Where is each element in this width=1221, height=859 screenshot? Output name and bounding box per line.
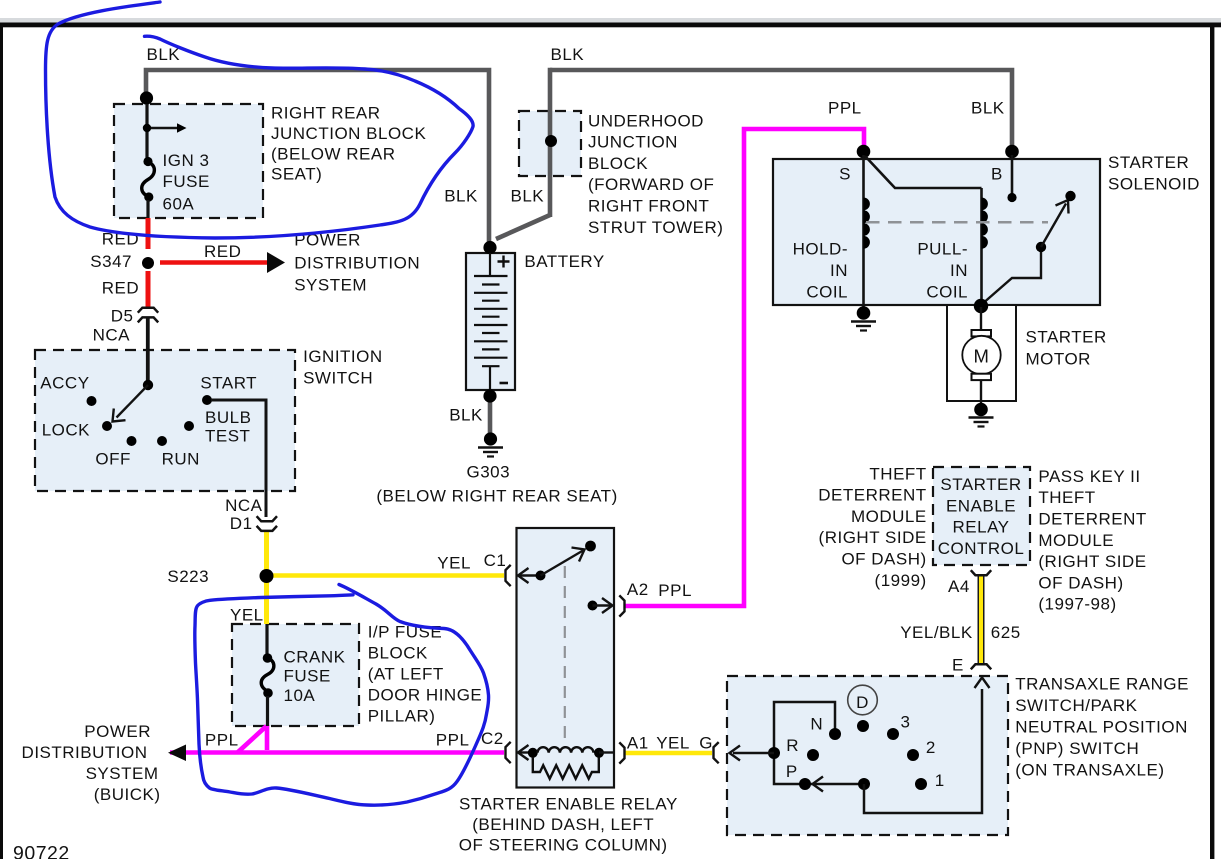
ground below starter motor bbox=[974, 403, 988, 417]
svg-text:IGNITION: IGNITION bbox=[303, 347, 383, 366]
PNP junction node R row bbox=[768, 747, 780, 759]
svg-text:(ON TRANSAXLE): (ON TRANSAXLE) bbox=[1015, 760, 1164, 779]
relay switch arm bbox=[541, 551, 584, 576]
svg-text:START: START bbox=[200, 374, 257, 393]
svg-text:RELAY: RELAY bbox=[953, 518, 1010, 537]
relay coil left node bbox=[528, 748, 538, 758]
relay switch pivot node bbox=[536, 571, 546, 581]
svg-text:E: E bbox=[952, 655, 964, 674]
svg-text:DISTRIBUTION: DISTRIBUTION bbox=[294, 253, 420, 272]
svg-text:R: R bbox=[786, 736, 799, 755]
svg-text:JUNCTION: JUNCTION bbox=[588, 133, 678, 152]
connector D1 (lower half) bbox=[257, 526, 277, 531]
hold-in coil bumps bbox=[864, 198, 870, 249]
feed arrow (filled) bbox=[177, 123, 187, 132]
contact START bbox=[202, 395, 212, 405]
relay coil scallops bbox=[538, 747, 594, 753]
svg-text:JUNCTION BLOCK: JUNCTION BLOCK bbox=[271, 124, 426, 143]
svg-text:IGN 3: IGN 3 bbox=[163, 151, 210, 170]
wire RED to power distribution arrow bbox=[160, 260, 270, 265]
starter motor box bbox=[947, 305, 1016, 401]
svg-text:SEAT): SEAT) bbox=[271, 165, 322, 184]
relay switch contact node bbox=[585, 541, 596, 552]
svg-text:IN: IN bbox=[830, 261, 848, 280]
svg-text:SWITCH/PARK: SWITCH/PARK bbox=[1015, 696, 1137, 715]
relay A1 link bbox=[599, 751, 613, 753]
svg-text:D5: D5 bbox=[111, 306, 134, 325]
relay switch: C1 arrow bbox=[519, 574, 541, 576]
svg-text:(AT LEFT: (AT LEFT bbox=[368, 665, 444, 684]
svg-text:FUSE: FUSE bbox=[284, 666, 331, 685]
hold-in coil wire bbox=[862, 155, 865, 305]
solenoid arm pivot node bbox=[1036, 242, 1046, 252]
solenoid S terminal node bbox=[857, 145, 871, 159]
svg-text:POWER: POWER bbox=[84, 722, 151, 741]
battery + sign bbox=[498, 256, 510, 268]
page frame top border bbox=[0, 23, 1221, 28]
connector A2 bbox=[619, 595, 624, 616]
arrow to power distribution system (black filled) bbox=[267, 252, 285, 273]
ignition switch arm bbox=[117, 385, 149, 418]
contact 2 bbox=[907, 749, 919, 761]
contact P bbox=[799, 778, 811, 790]
wire BLK diagonal to battery + node bbox=[496, 215, 550, 239]
svg-text:(1999): (1999) bbox=[875, 571, 927, 590]
solenoid junction to starter motor bbox=[974, 299, 988, 313]
svg-text:(RIGHT SIDE: (RIGHT SIDE bbox=[819, 528, 927, 547]
battery - terminal node bbox=[483, 389, 496, 402]
contact RUN bbox=[157, 436, 167, 446]
relay C1 arrowhead bbox=[518, 568, 529, 583]
ground G303 bbox=[484, 432, 497, 445]
svg-text:10A: 10A bbox=[284, 686, 316, 705]
svg-text:NEUTRAL POSITION: NEUTRAL POSITION bbox=[1015, 717, 1188, 736]
feed arrow line bbox=[151, 127, 178, 130]
wire into crank fuse bbox=[265, 624, 268, 654]
svg-text:BATTERY: BATTERY bbox=[524, 252, 604, 271]
svg-text:YEL: YEL bbox=[656, 734, 690, 753]
right rear junction block (IGN 3 fuse) dashed box bbox=[114, 104, 263, 218]
node S347 bbox=[142, 257, 154, 269]
svg-text:(PNP) SWITCH: (PNP) SWITCH bbox=[1015, 739, 1139, 758]
blue freehand circle annotation (top: around right rear junction block) bbox=[46, 2, 474, 238]
svg-text:THEFT: THEFT bbox=[1038, 488, 1095, 507]
svg-text:D1: D1 bbox=[230, 514, 253, 533]
svg-text:OF STEERING COLUMN): OF STEERING COLUMN) bbox=[459, 835, 668, 854]
svg-text:(RIGHT SIDE: (RIGHT SIDE bbox=[1038, 552, 1146, 571]
battery - sign bbox=[500, 382, 509, 385]
svg-text:C1: C1 bbox=[484, 551, 507, 570]
relay coil C2 arrow bbox=[519, 751, 533, 753]
wire BLK: right rear junction block to battery + bbox=[146, 70, 489, 245]
svg-text:SYSTEM: SYSTEM bbox=[86, 764, 159, 783]
svg-text:C2: C2 bbox=[481, 729, 504, 748]
connector D5 (upper half) bbox=[138, 308, 158, 313]
svg-text:DOOR HINGE: DOOR HINGE bbox=[368, 686, 483, 705]
PNP junction node bottom bbox=[858, 778, 870, 790]
svg-text:ENABLE: ENABLE bbox=[946, 496, 1016, 515]
motor brush top bbox=[972, 330, 992, 336]
relay A2 contact arrow bbox=[588, 601, 598, 611]
page frame top gray strip bbox=[0, 18, 1221, 23]
wire RED S347 to D5 bbox=[146, 271, 151, 307]
wire B to contact bbox=[1011, 155, 1014, 197]
svg-text:OF DASH): OF DASH) bbox=[841, 550, 926, 569]
ignition switch pivot node bbox=[143, 380, 153, 390]
svg-text:SWITCH: SWITCH bbox=[303, 369, 373, 388]
wire motor to ground bbox=[980, 380, 982, 403]
svg-text:(1997-98): (1997-98) bbox=[1038, 595, 1116, 614]
node S223 bbox=[260, 569, 274, 583]
svg-text:BLOCK: BLOCK bbox=[588, 154, 648, 173]
svg-text:RED: RED bbox=[102, 279, 139, 298]
solenoid switch arm bbox=[981, 251, 1041, 305]
svg-text:(FORWARD OF: (FORWARD OF bbox=[588, 175, 714, 194]
contact R bbox=[807, 749, 819, 761]
arrowhead at P contact bbox=[813, 777, 824, 792]
svg-text:YEL/BLK: YEL/BLK bbox=[900, 623, 973, 642]
relay dashed link bbox=[564, 566, 566, 749]
wire START to D1 bbox=[211, 400, 266, 517]
wire YEL S223 to relay C1 bbox=[273, 573, 504, 578]
svg-text:90722: 90722 bbox=[13, 843, 70, 859]
contact 3 bbox=[887, 728, 899, 740]
starter solenoid box bbox=[773, 159, 1100, 305]
connector D1 (upper half) bbox=[257, 516, 277, 521]
svg-text:BLK: BLK bbox=[511, 187, 545, 206]
svg-text:STARTER ENABLE RELAY: STARTER ENABLE RELAY bbox=[459, 794, 678, 813]
svg-text:THEFT: THEFT bbox=[869, 464, 926, 483]
svg-text:DETERRENT: DETERRENT bbox=[1038, 510, 1146, 529]
svg-text:M: M bbox=[974, 345, 990, 366]
svg-text:PILLAR): PILLAR) bbox=[368, 707, 436, 726]
fuse IGN 3 60A element bbox=[143, 157, 152, 166]
fuse CRANK 10A element bbox=[261, 658, 274, 692]
connector E bbox=[971, 664, 991, 669]
svg-text:CONTROL: CONTROL bbox=[938, 539, 1025, 558]
svg-text:2: 2 bbox=[926, 738, 936, 757]
svg-text:STARTER: STARTER bbox=[1026, 328, 1107, 347]
wire BLK: underhood junction to solenoid B bbox=[550, 70, 1012, 150]
svg-text:G303: G303 bbox=[467, 462, 511, 481]
svg-text:CRANK: CRANK bbox=[284, 647, 346, 666]
svg-text:SOLENOID: SOLENOID bbox=[1108, 175, 1200, 194]
svg-text:N: N bbox=[810, 714, 823, 733]
ignition switch dashed box bbox=[35, 350, 295, 491]
solenoid plunger dashed link bbox=[866, 221, 1048, 224]
starter enable relay box bbox=[517, 528, 615, 788]
relay arm arrowhead bbox=[572, 548, 585, 562]
svg-text:BLK: BLK bbox=[551, 45, 585, 64]
relay coil right node bbox=[594, 748, 604, 758]
svg-text:OF DASH): OF DASH) bbox=[1038, 573, 1123, 592]
svg-text:I/P FUSE: I/P FUSE bbox=[368, 622, 443, 641]
svg-text:IN: IN bbox=[950, 261, 968, 280]
svg-text:(BUICK): (BUICK) bbox=[94, 785, 161, 804]
contact B side bbox=[1007, 193, 1016, 202]
relay coil resistor zigzag bbox=[533, 757, 599, 779]
contact BULB TEST bbox=[184, 421, 194, 431]
svg-text:SYSTEM: SYSTEM bbox=[294, 276, 367, 295]
relay A2 arrowhead bbox=[602, 598, 613, 613]
svg-text:A4: A4 bbox=[948, 577, 970, 596]
svg-text:COIL: COIL bbox=[926, 283, 968, 302]
svg-text:OFF: OFF bbox=[95, 449, 130, 468]
wire S to pull-in coil bbox=[865, 156, 982, 188]
connector A1 bbox=[619, 742, 624, 763]
solenoid arm arrowhead bbox=[1056, 200, 1069, 214]
tap node in junction block bbox=[143, 124, 151, 132]
D position circle bbox=[848, 685, 878, 715]
wire PPL: relay A2 to solenoid S bbox=[626, 129, 865, 606]
PNP internal wiring N-R-P path bbox=[774, 702, 864, 784]
svg-text:TEST: TEST bbox=[205, 426, 250, 445]
svg-text:S: S bbox=[839, 164, 851, 183]
page frame right border bbox=[1210, 23, 1214, 859]
svg-text:S223: S223 bbox=[167, 567, 209, 586]
underhood junction block dashed box bbox=[519, 111, 581, 176]
svg-text:BLK: BLK bbox=[449, 405, 483, 424]
svg-text:UNDERHOOD: UNDERHOOD bbox=[588, 111, 704, 130]
svg-text:PASS KEY II: PASS KEY II bbox=[1038, 467, 1140, 486]
svg-text:625: 625 bbox=[991, 623, 1021, 642]
svg-text:STARTER: STARTER bbox=[940, 475, 1021, 494]
contact N bbox=[829, 728, 841, 740]
wire BLK through underhood junction block bbox=[548, 68, 553, 217]
battery box bbox=[466, 253, 515, 390]
svg-text:(BEHIND DASH, LEFT: (BEHIND DASH, LEFT bbox=[472, 815, 654, 834]
I/P fuse block (crank fuse) dashed box bbox=[232, 624, 359, 726]
svg-text:BLOCK: BLOCK bbox=[368, 643, 428, 662]
svg-text:COIL: COIL bbox=[806, 283, 848, 302]
svg-text:1: 1 bbox=[935, 771, 945, 790]
arrowhead to G connector bbox=[730, 746, 741, 761]
svg-text:A1: A1 bbox=[627, 734, 649, 753]
svg-text:PPL: PPL bbox=[205, 731, 239, 750]
svg-text:S347: S347 bbox=[90, 252, 132, 271]
contact ACCY bbox=[87, 396, 97, 406]
pull-in coil wire bbox=[980, 188, 983, 305]
solenoid B terminal node bbox=[1005, 145, 1019, 159]
svg-text:DISTRIBUTION: DISTRIBUTION bbox=[22, 743, 148, 762]
blue freehand circle annotation (bottom: around crank fuse block) bbox=[195, 585, 489, 806]
PNP wire to E bbox=[864, 689, 982, 813]
svg-text:DETERRENT: DETERRENT bbox=[818, 486, 926, 505]
svg-text:B: B bbox=[991, 164, 1003, 183]
svg-text:BULB: BULB bbox=[205, 408, 251, 427]
wire solenoid to motor bbox=[980, 307, 982, 330]
ignition switch arm arrowhead bbox=[113, 409, 126, 422]
svg-text:PULL-: PULL- bbox=[917, 239, 968, 258]
battery + terminal node bbox=[483, 241, 496, 254]
svg-text:RIGHT REAR: RIGHT REAR bbox=[271, 104, 381, 123]
motor circle M bbox=[962, 336, 1000, 374]
connector D5 (lower half) bbox=[138, 317, 158, 322]
svg-text:A2: A2 bbox=[627, 580, 649, 599]
svg-text:3: 3 bbox=[901, 713, 911, 732]
page frame left border bbox=[0, 23, 3, 859]
arrow to power distribution system Buick (black filled) bbox=[168, 745, 186, 762]
svg-text:YEL: YEL bbox=[437, 554, 471, 573]
svg-text:RED: RED bbox=[204, 242, 241, 261]
svg-text:(BELOW RIGHT REAR SEAT): (BELOW RIGHT REAR SEAT) bbox=[376, 487, 617, 506]
svg-text:MOTOR: MOTOR bbox=[1026, 349, 1091, 368]
svg-text:STARTER: STARTER bbox=[1108, 153, 1189, 172]
svg-text:MODULE: MODULE bbox=[851, 507, 927, 526]
svg-text:RIGHT FRONT: RIGHT FRONT bbox=[588, 197, 709, 216]
contact D bbox=[857, 720, 869, 732]
wire fuse to box exit bbox=[266, 696, 269, 726]
svg-text:TRANSAXLE RANGE: TRANSAXLE RANGE bbox=[1015, 674, 1189, 693]
wire fuse to box exit bbox=[146, 200, 149, 218]
node in underhood junction block bbox=[545, 135, 557, 147]
svg-text:P: P bbox=[786, 762, 798, 781]
svg-text:60A: 60A bbox=[163, 195, 195, 214]
starter enable relay control dashed box bbox=[933, 467, 1030, 565]
motor brush bottom bbox=[972, 374, 992, 380]
svg-text:FUSE: FUSE bbox=[163, 172, 210, 191]
svg-text:LOCK: LOCK bbox=[42, 420, 90, 439]
svg-text:YEL: YEL bbox=[230, 605, 264, 624]
svg-text:MODULE: MODULE bbox=[1038, 531, 1114, 550]
svg-text:STRUT TOWER): STRUT TOWER) bbox=[588, 218, 723, 237]
connector G bbox=[714, 742, 719, 763]
solenoid contact node bbox=[1065, 191, 1075, 201]
svg-text:PPL: PPL bbox=[658, 581, 692, 600]
svg-text:PPL: PPL bbox=[436, 731, 470, 750]
wire YEL relay A1 to PNP G bbox=[626, 751, 713, 756]
solenoid arm bbox=[1041, 204, 1066, 248]
wire YEL/BLK 625 (A4 to E) bbox=[978, 576, 985, 663]
svg-text:D: D bbox=[856, 693, 869, 712]
connector A4 bbox=[971, 570, 991, 575]
wire RED fuse to S347 bbox=[146, 218, 151, 249]
svg-text:RUN: RUN bbox=[162, 449, 200, 468]
wire NCA D5 to ignition switch bbox=[146, 319, 150, 386]
junction node above IGN 3 fuse bbox=[140, 91, 153, 104]
contact OFF bbox=[127, 436, 137, 446]
connector C2 bbox=[506, 742, 511, 763]
svg-text:NCA: NCA bbox=[225, 496, 263, 515]
svg-text:BLK: BLK bbox=[147, 45, 181, 64]
PNP switch dashed box bbox=[727, 676, 1008, 835]
wire inside junction block bbox=[145, 104, 148, 158]
connector C1 bbox=[506, 565, 511, 586]
battery plates bbox=[474, 253, 508, 390]
contact 1 bbox=[915, 778, 927, 790]
contact LOCK bbox=[102, 421, 112, 431]
svg-text:NCA: NCA bbox=[93, 326, 131, 345]
wire to G bbox=[733, 752, 774, 755]
arrowhead to E connector bbox=[975, 678, 990, 689]
ground below hold-in coil bbox=[862, 305, 865, 311]
wire BLK battery - to ground G303 bbox=[488, 399, 493, 436]
svg-text:BLK: BLK bbox=[971, 98, 1005, 117]
pull-in coil bumps bbox=[982, 198, 988, 249]
wire YEL D1 to S223 to crank fuse bbox=[264, 531, 269, 624]
svg-text:ACCY: ACCY bbox=[40, 374, 89, 393]
svg-text:G: G bbox=[699, 734, 713, 753]
svg-text:PPL: PPL bbox=[828, 98, 862, 117]
svg-text:HOLD-: HOLD- bbox=[793, 239, 848, 258]
svg-text:BLK: BLK bbox=[444, 187, 478, 206]
relay C2 arrowhead bbox=[518, 745, 529, 760]
wire PPL: crank fuse to power distribution (Buick) and relay C2 bbox=[265, 725, 270, 750]
svg-text:(BELOW REAR: (BELOW REAR bbox=[271, 144, 396, 163]
